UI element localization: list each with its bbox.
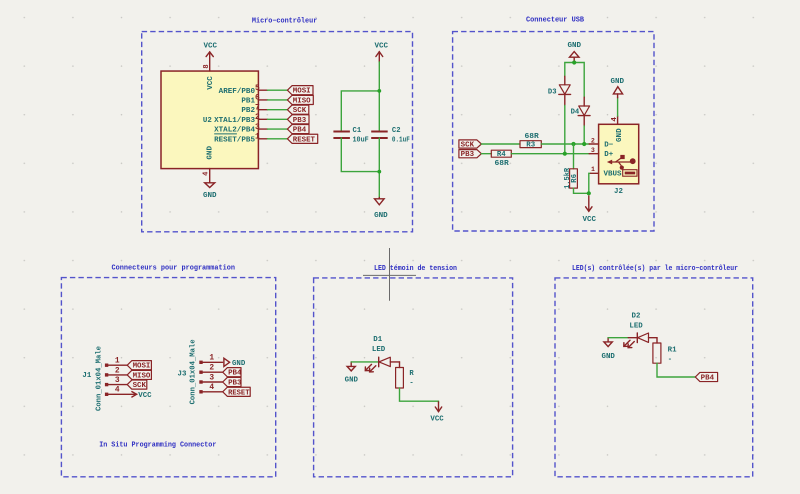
svg-text:Conn_01x04_Male: Conn_01x04_Male xyxy=(96,346,104,411)
svg-text:PB1: PB1 xyxy=(241,98,255,106)
overline on RESET pin name xyxy=(214,133,237,135)
junction VBUS/VCC xyxy=(587,191,591,195)
svg-text:8: 8 xyxy=(203,64,211,68)
svg-text:GND: GND xyxy=(345,376,359,384)
junction GND / top rail xyxy=(572,60,576,64)
D1 emission arrows xyxy=(365,364,376,372)
U2 pin 3 stub xyxy=(258,128,267,130)
wire R to VCC xyxy=(400,388,439,402)
svg-text:2: 2 xyxy=(255,113,260,122)
svg-text:D3: D3 xyxy=(548,89,557,97)
svg-text:R1: R1 xyxy=(668,346,678,354)
svg-text:4: 4 xyxy=(209,383,214,392)
J2 pin 3 D+ xyxy=(589,153,598,155)
svg-text:3: 3 xyxy=(115,376,120,385)
svg-text:2: 2 xyxy=(209,364,214,373)
svg-text:Conn_01x04_Male: Conn_01x04_Male xyxy=(189,339,197,404)
J1 pin 4 line xyxy=(108,393,136,395)
svg-text:68R: 68R xyxy=(495,160,510,168)
USB plug icon in J2 xyxy=(623,170,637,177)
svg-text:1: 1 xyxy=(115,357,120,366)
resistor R4 xyxy=(491,150,511,157)
junction top xyxy=(377,89,381,93)
section frame: Connecteurs pour programmation dashed box xyxy=(61,278,275,477)
svg-text:D1: D1 xyxy=(373,336,383,344)
wire R6 bottom to VCC/VBUS xyxy=(574,173,591,193)
svg-text:MISO: MISO xyxy=(133,372,151,380)
svg-text:VCC: VCC xyxy=(430,416,444,424)
wire D4 to D- line xyxy=(583,126,585,144)
J1 pin 1 pad xyxy=(105,364,108,367)
global label RESET at J3 xyxy=(223,387,251,396)
svg-text:Connecteurs pour programmation: Connecteurs pour programmation xyxy=(112,264,236,272)
junction D3 on D+ xyxy=(563,152,567,156)
svg-text:LED: LED xyxy=(629,322,643,330)
J2 pin 2 D- xyxy=(589,143,598,145)
svg-text:4: 4 xyxy=(202,171,210,176)
svg-text:1: 1 xyxy=(591,166,595,173)
global label RESET xyxy=(287,134,317,143)
svg-text:10uF: 10uF xyxy=(353,137,369,145)
svg-text:R: R xyxy=(409,370,414,378)
global label MOSI at J1 xyxy=(127,361,151,370)
svg-text:In Situ Programming Connector: In Situ Programming Connector xyxy=(99,442,216,450)
J3 pin 4 pad xyxy=(199,390,202,393)
svg-text:68R: 68R xyxy=(525,133,540,141)
power GND above J2 xyxy=(617,94,619,98)
U2 pin 7 stub xyxy=(258,109,267,111)
svg-text:VCC: VCC xyxy=(583,216,597,224)
junction R6 top on D- xyxy=(571,142,575,146)
section frame: LED temoin de tension dashed box xyxy=(314,278,513,477)
power GND at J3 pin 1 (triangle right) xyxy=(224,358,230,366)
svg-text:VBUS: VBUS xyxy=(604,171,623,179)
resistor R xyxy=(396,368,404,389)
wire pin 1 to label RESET xyxy=(268,138,288,140)
wire R3 to J2 D- xyxy=(541,143,589,145)
svg-text:C1: C1 xyxy=(353,127,362,135)
global label PB3 xyxy=(459,150,482,158)
power GND below U2 xyxy=(209,169,211,183)
power GND at D1 xyxy=(350,362,352,367)
global label SCK xyxy=(459,140,482,148)
svg-text:7: 7 xyxy=(255,103,260,112)
svg-text:PB4: PB4 xyxy=(701,375,714,383)
svg-text:LED témoin de tension: LED témoin de tension xyxy=(374,265,457,273)
power VCC below (arrow down) xyxy=(588,196,590,211)
global label PB4 xyxy=(287,125,309,134)
svg-text:J1: J1 xyxy=(82,372,92,380)
wire pin 2 to label PB3 xyxy=(268,118,288,120)
wire bottom branch from C1 xyxy=(341,138,379,172)
section frame: LED(s) controlee(s) dashed box xyxy=(555,278,753,477)
svg-text:GND: GND xyxy=(568,42,582,50)
svg-text:VCC: VCC xyxy=(138,392,152,400)
power VCC at J1 pin 4 (arrow right) xyxy=(132,392,137,397)
svg-text:AREF/PB0: AREF/PB0 xyxy=(219,88,256,96)
wire C2 down xyxy=(378,138,380,198)
resistor R6 1.5kR xyxy=(573,144,575,169)
svg-text:0.1uF: 0.1uF xyxy=(392,137,410,145)
svg-text:R4: R4 xyxy=(497,151,506,159)
section frame: Micro-controleur dashed box xyxy=(142,32,413,232)
svg-text:RESET: RESET xyxy=(228,389,249,397)
global label PB3 xyxy=(287,115,309,124)
wire GND to D1 xyxy=(351,361,379,363)
global label PB3 at J3 xyxy=(223,377,241,386)
junction bottom xyxy=(377,170,381,174)
svg-text:2: 2 xyxy=(591,137,595,144)
wire pin 6 to label MISO xyxy=(268,99,288,101)
svg-text:GND: GND xyxy=(203,192,217,200)
global label PB4 at J3 xyxy=(223,368,241,377)
global label SCK xyxy=(287,105,308,114)
svg-text:GND: GND xyxy=(616,128,624,142)
svg-text:RESET: RESET xyxy=(293,136,315,144)
svg-text:D+: D+ xyxy=(604,151,613,159)
J1 pin 3 pad xyxy=(105,383,108,386)
svg-text:U2: U2 xyxy=(203,117,212,125)
IC U2 body (ATtiny) xyxy=(161,71,258,169)
svg-text:3: 3 xyxy=(209,373,214,382)
capacitor C2 xyxy=(371,131,388,133)
svg-text:SCK: SCK xyxy=(461,141,475,149)
svg-text:PB4: PB4 xyxy=(228,370,241,378)
svg-text:D4: D4 xyxy=(571,109,580,117)
svg-text:D2: D2 xyxy=(632,312,641,320)
U2 pin 5 stub xyxy=(258,89,267,91)
svg-text:4: 4 xyxy=(611,117,619,122)
USB connector J2 body xyxy=(599,124,639,184)
U2 pin 6 stub xyxy=(258,99,267,101)
svg-text:SCK: SCK xyxy=(133,382,147,390)
svg-text:PB3: PB3 xyxy=(228,380,241,388)
svg-text:PB4: PB4 xyxy=(293,127,306,135)
svg-text:GND: GND xyxy=(207,145,215,159)
power VCC at D1 (arrow down) xyxy=(438,402,440,412)
global label SCK at J1 xyxy=(127,380,147,389)
J3 pin 2 line xyxy=(203,371,223,373)
J1 pin 1 line xyxy=(108,364,127,366)
svg-text:PB3: PB3 xyxy=(461,151,474,159)
svg-text:RESET/PB5: RESET/PB5 xyxy=(214,136,255,144)
resistor R1 xyxy=(653,343,661,363)
global label MOSI xyxy=(287,86,313,95)
global label MISO xyxy=(287,95,313,104)
svg-text:-: - xyxy=(409,380,413,388)
J1 pin 3 line xyxy=(108,384,127,386)
wire PB3 to R4 xyxy=(481,153,491,155)
svg-text:R3: R3 xyxy=(526,141,535,149)
power GND at D2 xyxy=(607,338,609,342)
U2 pin 2 stub xyxy=(258,118,267,120)
wire R4 to J2 D+ xyxy=(511,153,589,155)
wire top rail xyxy=(565,63,584,98)
wire R1 to PB4 xyxy=(657,363,695,377)
svg-text:-: - xyxy=(668,356,672,364)
cursor crosshair xyxy=(363,248,416,301)
svg-text:5: 5 xyxy=(255,84,260,93)
svg-text:1: 1 xyxy=(255,133,260,142)
J3 pin 3 pad xyxy=(199,380,202,383)
svg-text:D−: D− xyxy=(604,141,613,149)
junction D4 on D- xyxy=(582,142,586,146)
svg-text:GND: GND xyxy=(602,353,616,361)
svg-text:Connecteur USB: Connecteur USB xyxy=(526,17,585,25)
J3 pin 3 line xyxy=(203,381,223,383)
svg-text:C2: C2 xyxy=(392,127,401,135)
capacitor C1 xyxy=(333,131,350,133)
J2 pin 4 GND (top) xyxy=(617,116,619,124)
J3 pin 1 pad xyxy=(199,361,202,364)
global label MISO at J1 xyxy=(127,370,151,379)
svg-text:4: 4 xyxy=(115,386,120,395)
svg-text:VCC: VCC xyxy=(207,76,215,90)
svg-text:VCC: VCC xyxy=(375,43,389,51)
svg-text:LED: LED xyxy=(372,346,386,354)
svg-text:Micro−contrôleur: Micro−contrôleur xyxy=(252,17,317,25)
LED D2 symbol xyxy=(628,337,637,339)
svg-text:GND: GND xyxy=(374,212,388,220)
svg-text:PB3: PB3 xyxy=(293,117,306,125)
svg-text:R6: R6 xyxy=(571,174,579,183)
J3 pin 4 line xyxy=(203,391,223,393)
wire pin 3 to label PB4 xyxy=(268,128,288,130)
wire D2 to R1 xyxy=(656,338,658,343)
power VCC above U2 xyxy=(209,52,211,71)
LED D1 symbol xyxy=(378,357,380,367)
wire SCK to R3 xyxy=(481,143,520,145)
D2 emission arrows xyxy=(624,340,635,348)
svg-text:J2: J2 xyxy=(614,188,623,196)
U2 pin 1 stub xyxy=(258,138,267,140)
wire VCC down to C2 xyxy=(378,62,380,131)
wire D1 to R xyxy=(399,362,401,368)
svg-text:6: 6 xyxy=(255,94,260,103)
svg-text:SCK: SCK xyxy=(293,107,307,115)
wire GND to D2 xyxy=(608,337,628,339)
J3 pin 2 pad xyxy=(199,371,202,374)
wire pin 5 to label MOSI xyxy=(268,89,288,91)
wire top branch to C1 xyxy=(341,91,379,131)
svg-text:MOSI: MOSI xyxy=(293,88,311,96)
svg-text:LED(s) contrôlée(s) par le mic: LED(s) contrôlée(s) par le micro−contrôl… xyxy=(572,265,738,273)
svg-text:PB2: PB2 xyxy=(241,107,255,115)
svg-text:VCC: VCC xyxy=(204,42,218,50)
J1 pin 2 pad xyxy=(105,373,108,376)
diode D4 xyxy=(583,97,585,106)
svg-text:J3: J3 xyxy=(178,371,187,379)
power VCC above capacitors xyxy=(378,52,380,62)
svg-text:1: 1 xyxy=(209,354,214,363)
svg-text:3: 3 xyxy=(591,147,595,154)
global label PB4 at D2 xyxy=(695,372,717,381)
power GND below capacitors xyxy=(378,198,380,199)
svg-text:GND: GND xyxy=(611,78,625,86)
wire pin 7 to label SCK xyxy=(268,109,288,111)
J1 pin 2 line xyxy=(108,374,127,376)
section frame: Connecteur USB dashed box xyxy=(453,32,654,231)
wire D3 to D+ line xyxy=(564,105,566,153)
svg-text:XTAL1/PB3: XTAL1/PB3 xyxy=(214,117,255,125)
svg-text:MOSI: MOSI xyxy=(133,363,151,371)
svg-text:3: 3 xyxy=(255,123,260,132)
J1 pin 4 pad xyxy=(105,393,108,396)
diode D3 xyxy=(564,76,566,85)
svg-text:GND: GND xyxy=(232,360,246,368)
J3 pin 1 line xyxy=(203,361,223,363)
resistor R3 xyxy=(520,141,541,148)
svg-text:2: 2 xyxy=(115,366,120,375)
svg-text:MISO: MISO xyxy=(293,97,311,105)
USB trident icon in J2 xyxy=(607,155,636,170)
